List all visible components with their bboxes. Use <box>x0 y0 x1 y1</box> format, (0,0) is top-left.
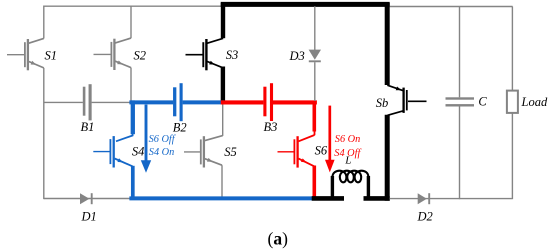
wire S2 collector <box>130 6 132 39</box>
load wire upper <box>511 7 513 91</box>
wire bottom rail right gray <box>390 198 512 200</box>
wire top rail left gray <box>44 5 223 7</box>
wire S6 emitter thick red to bottom <box>312 166 316 198</box>
svg-text:Sb: Sb <box>376 96 389 110</box>
battery B1 wire right <box>92 101 132 103</box>
resistor Load <box>507 91 518 113</box>
diode D3 wire lower <box>314 62 316 101</box>
svg-text:S4: S4 <box>132 145 145 159</box>
battery B3 red <box>265 83 272 121</box>
inductor L coil <box>332 171 368 183</box>
transistor Sb (mirrored) <box>387 85 426 115</box>
arrow blue commutation <box>141 105 151 173</box>
svg-text:D2: D2 <box>417 210 433 224</box>
wire right rail thick black upper <box>385 3 390 85</box>
svg-text:S1: S1 <box>45 48 58 62</box>
wire blue battery loop left <box>129 100 173 104</box>
arrow red commutation <box>325 106 335 173</box>
svg-text:S6: S6 <box>315 144 328 158</box>
wire S3 collector thick black <box>221 3 225 38</box>
battery B2 blue <box>175 83 181 121</box>
svg-text:S2: S2 <box>134 48 147 62</box>
wire right rail thick black lower <box>385 115 390 201</box>
inductor L left lead <box>331 176 334 200</box>
transistor S1 <box>7 38 44 70</box>
diode D3 wire upper <box>314 6 316 50</box>
svg-text:S4 On: S4 On <box>149 147 174 158</box>
wire top rail thick black <box>221 2 390 7</box>
transistor S6 red <box>278 135 315 168</box>
svg-text:S6 On: S6 On <box>335 134 360 145</box>
capacitor C <box>446 97 475 106</box>
svg-text:L: L <box>344 154 351 166</box>
wire blue thick vertical (node to S4 collector) <box>131 100 135 134</box>
svg-text:B3: B3 <box>264 120 278 134</box>
battery B1 wire left <box>44 101 83 103</box>
battery B1 <box>84 84 90 120</box>
wire bottom rail black right of inductor <box>364 196 390 201</box>
svg-text:(a): (a) <box>268 229 289 249</box>
svg-text:D3: D3 <box>289 49 305 63</box>
svg-text:C: C <box>478 95 487 109</box>
transistor S4 blue <box>93 136 132 168</box>
diode D1 <box>80 193 92 204</box>
capacitor C wire upper <box>459 7 461 98</box>
capacitor C wire lower <box>459 107 461 200</box>
inductor L right lead <box>367 176 370 200</box>
wire left rail lower (S1 emitter to bottom rail) <box>43 68 45 199</box>
wire node to S5 collector gray <box>222 104 224 136</box>
transistor S2 <box>94 38 132 70</box>
wire S4 collector stub <box>132 134 134 136</box>
svg-text:S3: S3 <box>226 48 239 62</box>
svg-text:B1: B1 <box>81 120 95 134</box>
wire blue battery loop right <box>183 100 225 104</box>
wire top rail right gray <box>390 6 513 8</box>
wire S5 emitter to bottom rail <box>221 165 223 198</box>
diode D3 <box>309 50 321 62</box>
transistor S3 <box>186 38 224 70</box>
wire S3 emitter thick black to node <box>221 67 225 105</box>
svg-text:S5: S5 <box>224 145 237 159</box>
wire S4 emitter thick blue to bottom rail <box>131 166 135 200</box>
wire S2 emitter to node <box>130 68 132 104</box>
svg-text:S6 Off: S6 Off <box>149 134 177 145</box>
wire S6 collector thick red <box>312 102 316 131</box>
wire red battery loop left <box>221 100 264 104</box>
load wire lower <box>511 113 513 199</box>
wire bottom rail blue <box>129 196 312 200</box>
svg-text:D1: D1 <box>81 210 97 224</box>
wire bottom rail black left of inductor <box>312 196 344 201</box>
diode D2 <box>418 193 430 204</box>
wire red battery loop right <box>273 100 317 104</box>
svg-text:Load: Load <box>521 95 548 109</box>
wire S6 collector stub <box>314 131 316 135</box>
transistor S5 <box>184 136 223 168</box>
wire left rail upper (S1 collector) <box>43 6 45 39</box>
wire bottom rail left gray <box>44 198 131 200</box>
svg-text:B2: B2 <box>173 120 187 134</box>
